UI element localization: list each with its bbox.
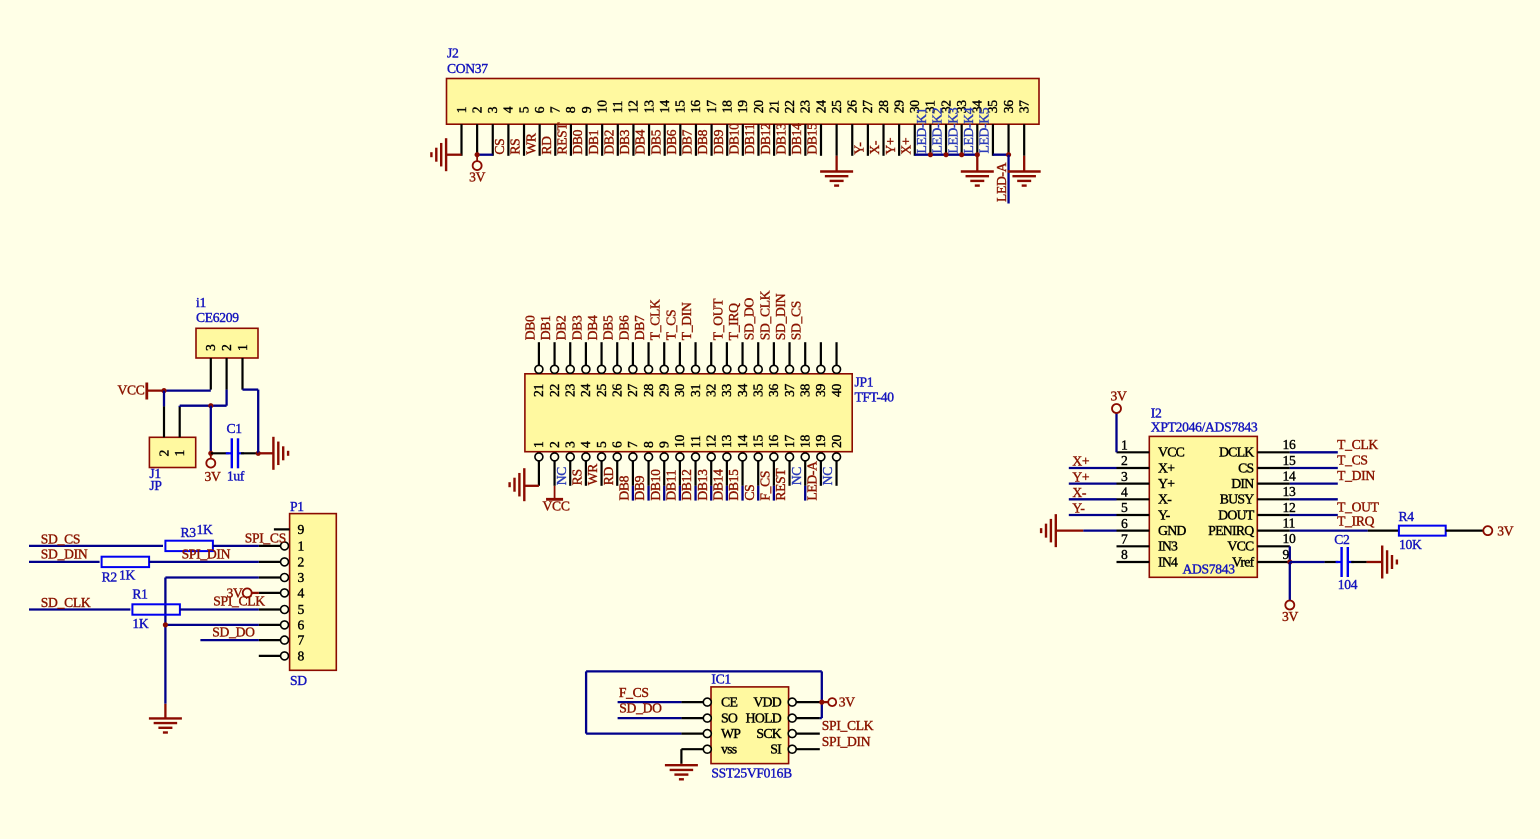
P1 pin 3 — [259, 576, 281, 578]
svg-text:HOLD: HOLD — [746, 711, 782, 726]
junction VCC node — [161, 388, 166, 393]
svg-text:20: 20 — [829, 435, 844, 448]
J2 pin 24 — [820, 124, 822, 156]
svg-text:16: 16 — [766, 435, 781, 448]
wire P1 pin3 to ground rail — [165, 576, 258, 578]
JP1 pin 5 — [598, 453, 606, 461]
svg-text:6: 6 — [610, 441, 625, 448]
JP1 pin 6 — [613, 453, 621, 461]
svg-text:Vref: Vref — [1232, 554, 1255, 569]
power port VCC at JP1 pin 2 — [554, 486, 556, 500]
svg-text:28: 28 — [876, 100, 891, 113]
svg-text:104: 104 — [1338, 577, 1358, 592]
svg-text:X+: X+ — [1072, 454, 1089, 469]
JP1 pin 1 — [535, 453, 543, 461]
svg-text:RS: RS — [570, 469, 585, 485]
svg-text:Y-: Y- — [1158, 507, 1171, 522]
svg-text:7: 7 — [298, 633, 305, 648]
svg-text:DB15: DB15 — [805, 123, 820, 155]
junction ground rail — [163, 622, 168, 627]
svg-text:10K: 10K — [1399, 537, 1422, 552]
I2 pin 11 — [1257, 530, 1290, 532]
svg-text:T_OUT: T_OUT — [710, 298, 725, 341]
svg-text:DB1: DB1 — [586, 130, 601, 155]
svg-text:34: 34 — [735, 384, 750, 397]
IC1 left pin WP — [681, 732, 704, 734]
P1 pin 7 — [259, 639, 281, 641]
svg-text:SI: SI — [770, 742, 782, 757]
JP1 pin 39 — [820, 342, 822, 366]
wire stub JP1 pin 14 — [741, 486, 743, 501]
connector JP1 TFT-40 body — [525, 374, 852, 452]
wire stub JP1 pin 10 — [679, 486, 681, 501]
svg-text:CE6209: CE6209 — [196, 310, 239, 325]
wire I2 VCC pin10 down — [1289, 546, 1291, 562]
J2 pin 35 — [992, 124, 994, 156]
IC1 left pin vss — [681, 748, 704, 750]
P1 pin 8 — [259, 655, 281, 657]
svg-text:ADS7843: ADS7843 — [1183, 562, 1236, 577]
svg-text:4: 4 — [501, 106, 516, 113]
svg-text:39: 39 — [813, 384, 828, 397]
svg-text:WR: WR — [585, 463, 600, 486]
svg-text:1uf: 1uf — [227, 469, 245, 484]
J2 pin 15 — [679, 124, 681, 156]
J2 pin 32 — [945, 124, 947, 156]
svg-text:T_OUT: T_OUT — [1337, 500, 1380, 515]
svg-text:T_CLK: T_CLK — [648, 299, 663, 340]
JP1 pin 33 — [726, 342, 728, 366]
JP1 pin 17 — [786, 453, 794, 461]
svg-text:11: 11 — [688, 436, 703, 449]
svg-text:VCC: VCC — [117, 383, 144, 398]
wire LED-A from J2 pin36 — [1007, 155, 1009, 204]
svg-text:DB10: DB10 — [648, 469, 663, 501]
I2 pin 14 — [1257, 483, 1290, 485]
svg-text:XPT2046/ADS7843: XPT2046/ADS7843 — [1151, 420, 1258, 435]
J2 pin 8 — [570, 124, 572, 156]
JP1 pin 2 — [551, 453, 559, 461]
svg-text:VCC: VCC — [1227, 539, 1254, 554]
svg-text:DB14: DB14 — [711, 469, 726, 501]
wire Vref to C2 — [1290, 561, 1325, 563]
svg-text:LED-K2: LED-K2 — [930, 107, 945, 153]
svg-text:26: 26 — [610, 384, 625, 397]
svg-text:LED-K4: LED-K4 — [961, 107, 976, 153]
svg-text:25: 25 — [594, 384, 609, 397]
svg-text:DB13: DB13 — [773, 123, 788, 155]
JP1 pin 4 — [582, 453, 590, 461]
svg-text:SD_CS: SD_CS — [789, 301, 804, 340]
svg-text:DB3: DB3 — [569, 315, 584, 340]
ground at C2 — [1381, 545, 1383, 578]
junction at J2 pin 32 — [943, 152, 948, 157]
J2 pin 11 — [617, 124, 619, 156]
wire Vref node to 3V — [1289, 562, 1291, 601]
JP1 pin 7 — [629, 453, 637, 461]
svg-text:14: 14 — [1283, 468, 1296, 483]
svg-text:T_DIN: T_DIN — [1337, 468, 1375, 483]
svg-text:1: 1 — [1121, 438, 1128, 453]
I2 pin 1 — [1117, 451, 1150, 453]
ground at J2 pin 34 — [961, 170, 994, 172]
JP1 pin 32 — [710, 342, 712, 366]
junction at C1 left — [208, 451, 213, 456]
svg-text:33: 33 — [719, 384, 734, 397]
svg-text:3V: 3V — [1282, 609, 1298, 624]
svg-text:15: 15 — [751, 435, 766, 448]
svg-text:IN3: IN3 — [1158, 539, 1178, 554]
svg-text:TFT-40: TFT-40 — [855, 390, 895, 405]
svg-text:7: 7 — [548, 106, 563, 113]
wire R2 to P1 pin2 (SPI_DIN) — [149, 561, 259, 563]
IC1 right pin SCK — [788, 730, 796, 738]
svg-text:5: 5 — [1121, 500, 1128, 515]
svg-text:WP: WP — [721, 726, 741, 741]
wire stub JP1 pin 7 — [632, 486, 634, 501]
svg-text:SPI_CS: SPI_CS — [245, 531, 286, 546]
svg-text:VCC: VCC — [1158, 445, 1185, 460]
wire SD_DIN to R2 — [29, 561, 100, 563]
svg-text:T_CS: T_CS — [663, 310, 678, 341]
JP1 pin 22 — [553, 342, 555, 366]
svg-text:DB4: DB4 — [585, 315, 600, 340]
svg-text:1: 1 — [454, 107, 469, 114]
wire C2 to ground — [1351, 561, 1366, 563]
svg-text:1: 1 — [298, 538, 305, 553]
svg-text:SD: SD — [290, 673, 307, 688]
JP1 pin 35 — [757, 342, 759, 366]
svg-text:DB10: DB10 — [727, 123, 742, 155]
wire I2 pin 14 — [1290, 482, 1338, 484]
i1 pin 2 — [226, 358, 228, 390]
power port 3V at IC1 VDD — [822, 701, 828, 703]
IC1 right pin HOLD — [788, 714, 796, 722]
svg-text:SD_CLK: SD_CLK — [757, 290, 772, 340]
wire X- to I2 pin 4 — [1069, 498, 1117, 500]
I2 pin 6 — [1117, 530, 1150, 532]
connector P1 SD body — [290, 514, 337, 671]
J2 pin 13 — [648, 124, 650, 156]
wire P1 pin6 to ground rail — [165, 624, 258, 626]
svg-text:16: 16 — [688, 100, 703, 113]
wire J2 pin37 to ground — [1023, 156, 1025, 172]
svg-text:R4: R4 — [1399, 509, 1415, 524]
svg-text:19: 19 — [813, 435, 828, 448]
svg-text:26: 26 — [845, 100, 860, 113]
svg-text:SPI_DIN: SPI_DIN — [182, 546, 231, 561]
jumper J1 body — [149, 437, 195, 467]
wire i1 pin1 down to ground node — [241, 388, 243, 390]
svg-text:GND: GND — [1158, 523, 1186, 538]
wire R1 to P1 pin5 (SPI_CLK) — [180, 608, 259, 610]
svg-text:JP1: JP1 — [855, 375, 874, 390]
J2 pin 36 — [1007, 124, 1009, 156]
wire stub JP1 pin 15 — [757, 486, 759, 501]
svg-text:38: 38 — [798, 384, 813, 397]
IC1 right pin VDD — [788, 698, 796, 706]
wire C1 to ground node — [241, 452, 258, 454]
junction at I2 Vref — [1287, 559, 1292, 564]
JP1 pin 34 — [741, 342, 743, 366]
svg-text:vss: vss — [721, 742, 737, 757]
svg-text:27: 27 — [625, 384, 640, 397]
JP1 pin 11 — [692, 453, 700, 461]
JP1 pin 19 — [817, 453, 825, 461]
svg-text:7: 7 — [625, 441, 640, 448]
JP1 pin 36 — [773, 342, 775, 366]
svg-text:F_CS: F_CS — [619, 685, 649, 700]
svg-text:BUSY: BUSY — [1220, 492, 1255, 507]
power port 3V at J2 pin 2 — [476, 156, 478, 162]
J1 pin 1 — [179, 406, 181, 437]
wire I2 pin 15 — [1290, 467, 1338, 469]
svg-text:12: 12 — [626, 100, 641, 113]
JP1 pin 16 — [770, 453, 778, 461]
svg-text:36: 36 — [766, 384, 781, 397]
svg-text:CE: CE — [721, 695, 737, 710]
svg-text:17: 17 — [704, 100, 719, 113]
wire stub JP1 pin 16 — [773, 486, 775, 501]
svg-text:3V: 3V — [204, 469, 220, 484]
JP1 pin 31 — [694, 342, 696, 366]
resistor R4 — [1399, 526, 1446, 536]
JP1 pin 15 — [754, 453, 762, 461]
power port 3V below I2 — [1285, 601, 1294, 610]
J2 pin 26 — [851, 124, 853, 156]
J2 pin 30 — [914, 124, 916, 156]
ground at IC1 vss — [680, 764, 682, 766]
svg-text:CS: CS — [1238, 460, 1253, 475]
svg-text:LED-A: LED-A — [805, 461, 820, 501]
P1 pin 9 — [274, 528, 290, 530]
wire PENIRQ to R4 — [1368, 530, 1399, 532]
J2 pin 25 — [836, 124, 838, 156]
wire JP1 pin1 to ground — [524, 485, 539, 487]
svg-text:DB6: DB6 — [664, 129, 679, 154]
svg-text:SST25VF016B: SST25VF016B — [711, 766, 792, 781]
svg-text:DB12: DB12 — [679, 469, 694, 501]
JP1 pin 27 — [632, 342, 634, 366]
svg-text:15: 15 — [673, 100, 688, 113]
svg-text:T_DIN: T_DIN — [679, 302, 694, 340]
svg-text:4: 4 — [298, 585, 305, 600]
svg-text:3: 3 — [563, 441, 578, 448]
I2 pin 16 — [1257, 451, 1290, 453]
svg-text:27: 27 — [860, 100, 875, 113]
J2 pin 18 — [726, 124, 728, 156]
power port 3V at C1 — [210, 453, 212, 459]
svg-text:DB0: DB0 — [522, 315, 537, 340]
svg-text:Y-: Y- — [852, 142, 867, 155]
svg-text:10: 10 — [594, 100, 609, 113]
capacitor C1 — [231, 438, 233, 468]
svg-text:SD_DO: SD_DO — [212, 625, 255, 640]
svg-text:DB14: DB14 — [789, 123, 804, 155]
svg-text:12: 12 — [704, 435, 719, 448]
svg-text:RD: RD — [539, 136, 554, 155]
svg-text:5: 5 — [516, 106, 531, 113]
wire R3 to P1 pin1 (SPI_CS) — [213, 545, 259, 547]
svg-text:IN4: IN4 — [1158, 554, 1178, 569]
resistor R1 — [132, 604, 180, 614]
JP1 pin 8 — [645, 453, 653, 461]
wire Y+ to I2 pin 3 — [1069, 482, 1117, 484]
I2 pin 9 — [1257, 561, 1290, 563]
wire i1 pin2 to J1 pin1 — [225, 390, 227, 406]
resistor R2 — [102, 557, 150, 567]
wire J2 pin1 to ground — [446, 154, 461, 156]
svg-text:T_CLK: T_CLK — [1337, 437, 1378, 452]
wire stub JP1 pin 18 — [804, 486, 806, 501]
svg-text:21: 21 — [766, 100, 781, 113]
svg-text:SD_DIN: SD_DIN — [41, 546, 88, 561]
J2 pin 3 — [492, 124, 494, 156]
svg-text:5: 5 — [594, 441, 609, 448]
svg-text:CS: CS — [492, 139, 507, 155]
wire stub JP1 pin 9 — [663, 486, 665, 501]
JP1 pin 30 — [679, 342, 681, 366]
svg-text:25: 25 — [829, 100, 844, 113]
svg-text:Y-: Y- — [1072, 501, 1085, 516]
J2 pin 27 — [867, 124, 869, 156]
svg-text:Y+: Y+ — [1072, 469, 1089, 484]
svg-text:T_CS: T_CS — [1337, 453, 1368, 468]
svg-text:R1: R1 — [132, 587, 147, 602]
svg-text:DB5: DB5 — [601, 315, 616, 340]
svg-text:6: 6 — [532, 106, 547, 113]
svg-text:3: 3 — [298, 570, 305, 585]
J2 pin 28 — [882, 124, 884, 156]
wire X+ to I2 pin 2 — [1069, 467, 1117, 469]
JP1 pin 24 — [585, 342, 587, 366]
wire VCC node down to J1 pin2 — [163, 391, 165, 407]
wire Y- to I2 pin 5 — [1069, 514, 1117, 516]
svg-text:3V: 3V — [839, 694, 855, 709]
JP1 pin 25 — [600, 342, 602, 366]
J2 pin 5 — [523, 124, 525, 156]
IC1 right pin SI — [788, 745, 796, 753]
capacitor C2 — [1340, 547, 1342, 577]
svg-text:DB2: DB2 — [554, 315, 569, 340]
wire R4 to 3V — [1446, 530, 1484, 532]
svg-text:35: 35 — [751, 384, 766, 397]
junction at J2 pin 36 — [1006, 152, 1011, 157]
svg-text:8: 8 — [641, 441, 656, 448]
svg-text:Y+: Y+ — [883, 138, 898, 155]
JP1 pin 40 — [835, 342, 837, 366]
svg-text:1K: 1K — [119, 568, 135, 583]
i1 pin 1 — [241, 358, 243, 390]
wire J2 pin25 to ground — [835, 156, 837, 172]
svg-text:WR: WR — [523, 132, 538, 155]
svg-text:DCLK: DCLK — [1219, 445, 1254, 460]
svg-text:NC: NC — [554, 467, 569, 486]
svg-text:DB11: DB11 — [742, 124, 757, 155]
wire stub JP1 pin 13 — [726, 486, 728, 501]
JP1 pin 23 — [569, 342, 571, 366]
I2 pin 8 — [1117, 561, 1150, 563]
svg-text:R3: R3 — [181, 525, 197, 540]
svg-text:DB15: DB15 — [726, 469, 741, 501]
IC1 left pin SO — [681, 717, 704, 719]
svg-text:DB8: DB8 — [695, 129, 710, 154]
svg-text:C1: C1 — [227, 421, 242, 436]
svg-text:13: 13 — [641, 100, 656, 113]
svg-text:28: 28 — [641, 384, 656, 397]
svg-text:23: 23 — [563, 384, 578, 397]
svg-text:30: 30 — [672, 384, 687, 397]
svg-text:22: 22 — [547, 384, 562, 397]
JP1 pin 12 — [707, 453, 715, 461]
svg-text:X+: X+ — [898, 138, 913, 155]
J2 pin 7 — [554, 124, 556, 156]
J2 pin 20 — [757, 124, 759, 156]
ground at C1 — [272, 437, 274, 470]
J2 pin 33 — [961, 124, 963, 156]
svg-text:i1: i1 — [196, 295, 206, 310]
svg-text:T_IRQ: T_IRQ — [726, 303, 741, 340]
P1 pin 4 — [259, 592, 281, 594]
I2 pin 12 — [1257, 514, 1290, 516]
I2 pin 7 — [1117, 545, 1150, 547]
svg-text:X-: X- — [867, 140, 882, 155]
svg-text:17: 17 — [782, 435, 797, 448]
svg-text:4: 4 — [1121, 485, 1128, 500]
J2 pin 29 — [898, 124, 900, 156]
svg-text:9: 9 — [298, 522, 305, 537]
svg-text:29: 29 — [891, 100, 906, 113]
svg-text:15: 15 — [1283, 453, 1296, 468]
ground at JP1 pin 1 — [523, 468, 525, 501]
svg-text:5: 5 — [298, 602, 305, 617]
ground at J2 pin 37 — [1008, 170, 1041, 172]
wire I2 pin 13 — [1290, 498, 1338, 500]
svg-text:X+: X+ — [1158, 460, 1175, 475]
svg-text:23: 23 — [798, 100, 813, 113]
svg-text:PENIRQ: PENIRQ — [1208, 523, 1254, 538]
power port 3V at R4 — [1483, 526, 1492, 535]
ground below P1 — [164, 704, 166, 719]
svg-text:10: 10 — [672, 435, 687, 448]
I2 pin 2 — [1117, 467, 1150, 469]
svg-text:LED-K5: LED-K5 — [977, 107, 992, 153]
svg-text:9: 9 — [1283, 547, 1290, 562]
svg-text:14: 14 — [657, 100, 672, 113]
svg-text:VCC: VCC — [543, 499, 570, 514]
JP1 pin 26 — [616, 342, 618, 366]
J2 pin 34 — [976, 124, 978, 156]
svg-text:1K: 1K — [197, 522, 213, 537]
svg-text:JP: JP — [149, 478, 162, 493]
JP1 pin 13 — [723, 453, 731, 461]
junction at J2 pin 34 — [975, 152, 980, 157]
svg-text:1: 1 — [235, 345, 250, 352]
svg-text:LED-K1: LED-K1 — [914, 108, 929, 154]
svg-text:3V: 3V — [1111, 389, 1127, 404]
JP1 pin 21 — [538, 342, 540, 366]
svg-text:X-: X- — [1158, 492, 1172, 507]
J2 pin 19 — [742, 124, 744, 156]
J2 pin 22 — [789, 124, 791, 156]
power port 3V at I2 pin1 — [1115, 413, 1117, 453]
wire SD_CLK to R1 — [29, 608, 130, 610]
svg-text:18: 18 — [720, 100, 735, 113]
svg-text:11: 11 — [610, 101, 625, 114]
svg-text:DB7: DB7 — [632, 315, 647, 340]
J1 pin 2 — [163, 406, 165, 437]
svg-text:13: 13 — [719, 435, 734, 448]
